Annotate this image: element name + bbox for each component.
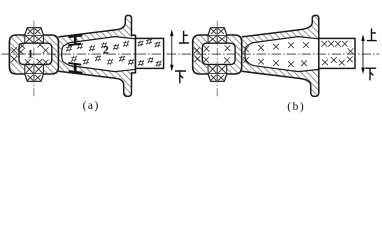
label xia (down) (175, 71, 186, 83)
square flange outer outline (9, 35, 58, 74)
up-down direction arrow (362, 40, 364, 69)
square flange inner hole outline (19, 43, 52, 64)
horizontal centerline shared by both figures (2, 53, 380, 55)
core print cross cells (26, 36, 33, 42)
hatched wall of square flange (9, 35, 58, 74)
hash marks of core 2 (66, 46, 72, 52)
chaplet top (69, 35, 83, 39)
label shang (up) (367, 28, 377, 40)
square flange outer outline (193, 35, 242, 74)
svg-text:1: 1 (27, 47, 33, 61)
top core print (25, 28, 44, 35)
up-down direction arrow (171, 35, 173, 66)
chaplet bottom (69, 70, 83, 74)
cavity outline (245, 37, 319, 72)
label shang (up) (179, 31, 189, 43)
bottom core print (208, 74, 227, 81)
scattered x marks in square core (19, 43, 25, 49)
core print cross cells (209, 36, 216, 42)
top core print (208, 28, 227, 35)
cavity outline (62, 37, 136, 72)
hatched conical body wall (58, 15, 135, 96)
right core print (136, 38, 164, 68)
x marks of single core (243, 46, 249, 52)
square flange inner hole outline (202, 43, 235, 64)
label xia (down) (365, 68, 376, 80)
vertical centerline of square flange (216, 21, 218, 98)
svg-text:(b): (b) (287, 101, 305, 113)
svg-text:(a): (a) (83, 100, 100, 112)
body outline (242, 15, 319, 96)
vertical centerline of square flange (33, 21, 35, 98)
hatched conical body wall (242, 15, 319, 96)
right core print (319, 38, 355, 68)
scattered x marks in square core (204, 46, 210, 52)
body outline (58, 15, 135, 96)
bottom core print (25, 74, 44, 81)
hatched wall of square flange (193, 35, 242, 74)
